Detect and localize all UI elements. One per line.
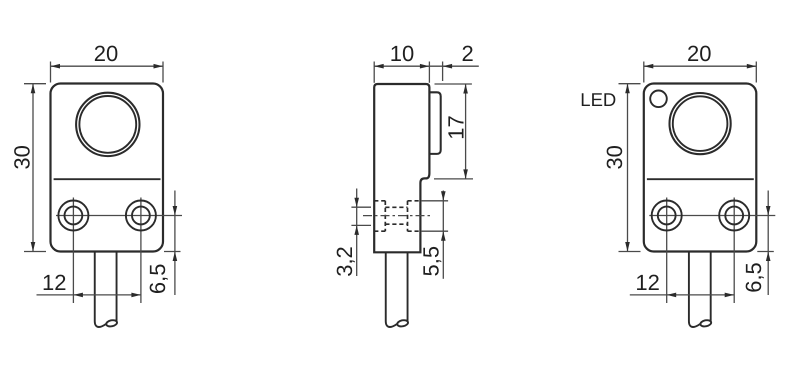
dimension 20 (left view) (51, 62, 164, 83)
dimension 3,2 (middle view) (351, 189, 371, 277)
dimension 17 (middle view) (434, 84, 473, 179)
dimension 12 (left view) (37, 294, 141, 296)
svg-text:2: 2 (461, 41, 473, 66)
mounting hole 1 (58, 201, 88, 231)
svg-text:20: 20 (94, 41, 118, 66)
dimension 10 and 2 (middle view) (374, 62, 479, 83)
sensing face inner circle (79, 96, 136, 153)
svg-text:12: 12 (42, 270, 66, 295)
svg-text:6,5: 6,5 (741, 262, 766, 293)
hole centerline (dash-dot) (363, 215, 432, 217)
dimension 20 (right view) (644, 62, 757, 83)
svg-text:6,5: 6,5 (145, 264, 170, 295)
cable (rear view) (689, 252, 712, 328)
svg-text:12: 12 (635, 270, 659, 295)
sensing face outer circle (rear) (670, 93, 731, 154)
holes horizontal centerline (rear) (649, 215, 775, 217)
mounting hole 3 (652, 201, 682, 231)
dimension 30 (left view) (24, 84, 46, 252)
hole 3 vertical centerline / extension (666, 198, 668, 304)
cable (side view) (386, 252, 409, 327)
svg-text:20: 20 (687, 41, 711, 66)
sensor body (side view) (374, 84, 429, 252)
dimension 5,5 (middle view) (421, 191, 448, 279)
svg-text:10: 10 (390, 41, 414, 66)
dimension 12 (right view) (630, 294, 734, 296)
mounting hole 2 (126, 201, 156, 231)
sensor body (rear view) (644, 84, 757, 252)
dimension 6,5 (left view) (164, 191, 181, 296)
svg-text:LED: LED (580, 89, 616, 110)
svg-text:17: 17 (443, 115, 468, 139)
hole 2 vertical centerline / extension (140, 198, 142, 304)
hidden mounting hole (dashed) (374, 201, 421, 231)
svg-text:3,2: 3,2 (332, 246, 357, 277)
mounting hole 4 (719, 201, 749, 231)
hole 4 vertical centerline / extension (733, 198, 735, 304)
LED indicator circle (650, 91, 667, 108)
sensing face inner circle (rear) (673, 96, 728, 151)
cable (95, 252, 118, 328)
svg-text:30: 30 (10, 145, 35, 169)
svg-text:30: 30 (602, 145, 627, 169)
hole 1 vertical centerline / extension (72, 198, 74, 304)
dimension 30 (right view) (619, 84, 641, 252)
sensor body (front view) (51, 84, 164, 252)
separator line (54, 178, 161, 180)
holes horizontal centerline (56, 215, 182, 217)
svg-text:5,5: 5,5 (419, 246, 444, 277)
sensing face bump (429, 92, 440, 154)
dimension 6,5 (right view) (757, 191, 774, 296)
sensing face outer circle (76, 93, 139, 156)
separator line (rear) (647, 178, 754, 180)
